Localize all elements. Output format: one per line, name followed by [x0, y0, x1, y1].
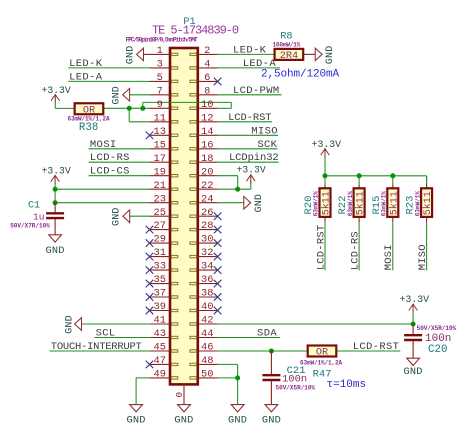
- wire pin46 to R47: [218, 350, 309, 352]
- junction +3.3V pin21: [53, 187, 58, 192]
- junction C21: [269, 349, 274, 354]
- svg-text:GND: GND: [112, 86, 123, 105]
- pin 3: [150, 59, 178, 71]
- svg-text:8: 8: [204, 85, 210, 97]
- svg-text:MISO: MISO: [417, 244, 429, 270]
- ground pin7: [112, 86, 130, 105]
- svg-text:GND: GND: [174, 415, 193, 427]
- svg-text:49: 49: [154, 369, 166, 381]
- +3.3V pullups: [321, 149, 330, 158]
- wire LED-A pin5: [69, 80, 151, 82]
- wire +3.3V C20 shaft: [412, 312, 414, 324]
- svg-text:TOUCH-INTERRUPT: TOUCH-INTERRUPT: [51, 341, 142, 353]
- svg-text:63mW/1%: 63mW/1%: [414, 191, 421, 217]
- svg-text:C1: C1: [28, 201, 40, 212]
- svg-text:25: 25: [154, 207, 166, 219]
- pin 12: [190, 112, 218, 124]
- resistor R38: [75, 103, 104, 116]
- svg-text:5: 5: [157, 72, 163, 84]
- wire pin50 down to GND: [237, 378, 239, 405]
- wire pin42 to +3.3V rail: [218, 323, 414, 325]
- svg-text:19: 19: [154, 166, 166, 178]
- svg-text:27: 27: [154, 220, 166, 232]
- svg-text:+3.3V: +3.3V: [42, 166, 71, 177]
- pin 42: [190, 315, 218, 327]
- junction pin50: [235, 375, 240, 380]
- svg-text:GND: GND: [254, 194, 265, 213]
- svg-text:21: 21: [154, 180, 166, 192]
- pin 11: [150, 112, 178, 124]
- pin 47: [146, 355, 178, 368]
- svg-text:R38: R38: [79, 122, 98, 134]
- ground C20: [404, 358, 423, 378]
- wire dot to pin11 vertical: [128, 108, 130, 122]
- svg-text:LCD-RS: LCD-RS: [90, 152, 130, 164]
- wire +3.3V to pin21: [55, 188, 150, 190]
- svg-text:SCK: SCK: [257, 139, 277, 151]
- pin 41: [150, 315, 178, 327]
- svg-text:0: 0: [174, 392, 185, 398]
- svg-text:6: 6: [204, 72, 210, 84]
- svg-text:2,5ohm/120mA: 2,5ohm/120mA: [261, 69, 340, 81]
- svg-text:50V/X5R/10%: 50V/X5R/10%: [417, 325, 457, 332]
- svg-text:FPC/50pin10P/0,5mmPitch/SMT: FPC/50pin10P/0,5mmPitch/SMT: [126, 36, 198, 43]
- C21 pin upper: [270, 351, 272, 374]
- svg-text:GND: GND: [404, 366, 423, 378]
- svg-text:LED-A: LED-A: [243, 58, 277, 70]
- wire R20 bottom: [324, 217, 326, 222]
- C1 pin upper: [54, 203, 56, 213]
- resistor R47: [308, 346, 337, 359]
- svg-text:GND: GND: [46, 245, 65, 257]
- pin 38: [190, 288, 221, 301]
- pin 5: [150, 72, 178, 84]
- +3.3V C20: [409, 304, 418, 313]
- wire R20 top: [324, 176, 326, 185]
- wire LED-K pin3: [69, 67, 151, 69]
- svg-text:LCD-RS: LCD-RS: [349, 231, 361, 270]
- pin 31: [146, 247, 178, 260]
- pin 40: [190, 301, 221, 314]
- wire MISO pin14: [218, 134, 278, 136]
- wire LCD-RST pin12: [218, 121, 272, 123]
- wire LCD-CS pin19: [89, 175, 151, 177]
- svg-text:SCL: SCL: [96, 328, 116, 340]
- pin 39: [146, 301, 178, 314]
- wire SCL pin43: [95, 337, 151, 339]
- svg-text:43: 43: [154, 328, 166, 340]
- svg-text:63mW/1%/1,2A: 63mW/1%/1,2A: [300, 360, 343, 367]
- svg-text:LCDpin32: LCDpin32: [229, 152, 279, 164]
- pin 24: [190, 193, 218, 205]
- wire pin48 down: [237, 364, 239, 378]
- pin 27: [146, 220, 178, 233]
- wire R23 drop: [426, 176, 428, 185]
- svg-text:28: 28: [201, 220, 213, 232]
- svg-text:20: 20: [201, 166, 213, 178]
- resistor R23: [421, 188, 434, 217]
- pin 46: [190, 342, 218, 354]
- wire R23 top: [426, 176, 428, 185]
- svg-text:MISO: MISO: [251, 125, 278, 137]
- resistor R15: [387, 188, 400, 217]
- svg-text:50V/X7R/10%: 50V/X7R/10%: [10, 223, 50, 230]
- svg-text:+3.3V: +3.3V: [312, 139, 342, 150]
- svg-text:13: 13: [154, 126, 166, 138]
- pin 20: [190, 166, 218, 178]
- connector P1 body: [170, 48, 198, 384]
- wire pin49 left: [136, 377, 150, 379]
- pin 30: [190, 234, 221, 247]
- wire pin50 right: [218, 377, 238, 379]
- wire LED-A pin4: [218, 67, 280, 69]
- wire +3.3V rail pullups: [325, 175, 427, 177]
- junction pin9 A: [127, 106, 132, 111]
- wire GND pin41: [82, 323, 151, 325]
- svg-text:2R4: 2R4: [280, 51, 298, 62]
- svg-text:3: 3: [157, 59, 163, 71]
- ground pin49: [127, 405, 146, 427]
- pin 0 mounting: [174, 386, 185, 405]
- pin 19: [150, 166, 178, 178]
- svg-text:50: 50: [201, 369, 213, 381]
- svg-text:5k11: 5k11: [321, 191, 333, 215]
- junction pin22: [235, 187, 240, 192]
- wire SDA pin44: [218, 337, 280, 339]
- svg-text:32: 32: [201, 247, 213, 259]
- svg-text:44: 44: [201, 328, 213, 340]
- svg-text:35: 35: [154, 274, 166, 286]
- wire +3.3V vertical C1: [54, 183, 56, 203]
- pin 18: [190, 153, 218, 165]
- pin 8: [190, 85, 218, 97]
- wire +3.3V shaft pullups: [324, 157, 326, 176]
- C20 pin upper: [412, 324, 414, 334]
- resistor R22: [354, 188, 367, 217]
- wire pin2 to R8: [218, 53, 275, 55]
- pin 22: [190, 180, 218, 192]
- C21 pin lower: [270, 381, 272, 405]
- wire pin20 down to pin22: [237, 176, 239, 190]
- wire pin20 right: [218, 175, 238, 177]
- pin 48: [190, 355, 218, 367]
- svg-text:46: 46: [201, 342, 213, 354]
- svg-text:GND: GND: [112, 207, 123, 226]
- svg-text:34: 34: [201, 261, 213, 273]
- pin 23: [150, 193, 178, 205]
- pin 50: [190, 369, 218, 381]
- svg-text:5k11: 5k11: [355, 191, 367, 215]
- wire GND pin7: [130, 94, 150, 96]
- wire loop to pin10: [218, 107, 232, 109]
- ground pin25: [112, 207, 130, 226]
- svg-text:LCD-RST: LCD-RST: [228, 112, 271, 124]
- ground R8: [315, 46, 336, 65]
- svg-text:OR: OR: [316, 348, 328, 359]
- svg-text:GND: GND: [262, 415, 281, 427]
- svg-text:GND: GND: [65, 315, 76, 334]
- wire R15 bottom: [392, 217, 394, 222]
- svg-text:42: 42: [201, 315, 213, 327]
- C1 pin lower: [54, 219, 56, 235]
- svg-text:5k11: 5k11: [388, 191, 400, 215]
- svg-text:LED-K: LED-K: [233, 44, 267, 56]
- pin 35: [146, 274, 178, 287]
- wire over body pins9-10 up: [142, 102, 144, 108]
- resistor R20: [320, 188, 333, 217]
- svg-text:τ=10ms: τ=10ms: [327, 379, 367, 391]
- svg-text:SDA: SDA: [257, 328, 277, 340]
- capacitor C21: [262, 375, 280, 380]
- svg-text:38: 38: [201, 288, 213, 300]
- pin 43: [150, 328, 178, 340]
- svg-text:GND: GND: [126, 46, 137, 65]
- wire LCD-PWM pin8: [218, 94, 282, 96]
- svg-text:63mW/1%: 63mW/1%: [381, 191, 388, 217]
- svg-text:MOSI: MOSI: [383, 244, 395, 270]
- svg-text:+3.3V: +3.3V: [237, 165, 266, 176]
- svg-text:GND: GND: [127, 415, 146, 427]
- svg-text:GND: GND: [228, 415, 247, 427]
- wire R15 top: [392, 176, 394, 185]
- pin 29: [146, 234, 178, 247]
- svg-text:41: 41: [154, 315, 166, 327]
- svg-text:7: 7: [157, 85, 163, 97]
- svg-text:14: 14: [201, 126, 213, 138]
- svg-text:23: 23: [154, 193, 166, 205]
- wire SCK pin16: [218, 148, 278, 150]
- ground pin0: [174, 405, 193, 427]
- pin 17: [150, 153, 178, 165]
- pin 45: [150, 342, 178, 354]
- ground pin24: [244, 194, 265, 213]
- junction R20: [323, 173, 328, 178]
- pin 9: [150, 99, 178, 111]
- wire +3.3V to pin23: [55, 202, 150, 204]
- svg-text:GND: GND: [325, 46, 336, 65]
- wire pin49 down to GND: [135, 378, 137, 405]
- svg-text:LCD-RST: LCD-RST: [353, 341, 400, 353]
- wire LCD-RS pin17: [89, 161, 151, 163]
- svg-text:MOSI: MOSI: [90, 139, 117, 151]
- svg-text:LCD-PWM: LCD-PWM: [233, 85, 280, 97]
- C20 pin lower: [412, 341, 414, 358]
- junction R15: [390, 173, 395, 178]
- svg-text:+3.3V: +3.3V: [400, 294, 430, 305]
- wire +3.3V to R38: [54, 103, 56, 109]
- svg-text:2: 2: [204, 45, 210, 57]
- pin 14: [190, 126, 218, 138]
- svg-text:LCD-RST: LCD-RST: [315, 225, 327, 271]
- wire GND pin1 stub: [144, 53, 151, 55]
- pin 13: [146, 126, 178, 139]
- svg-text:17: 17: [154, 153, 166, 165]
- pin 49: [150, 369, 178, 381]
- ground pin50: [228, 405, 247, 427]
- junction R22: [357, 173, 362, 178]
- svg-text:39: 39: [154, 301, 166, 313]
- pin 34: [190, 261, 221, 274]
- wire TOUCH-INTERRUPT pin45: [50, 350, 151, 352]
- wire dot to pin11 horizontal: [129, 121, 150, 123]
- pin 7: [150, 85, 178, 97]
- wire loop pin10 down: [230, 102, 232, 108]
- svg-text:18: 18: [201, 153, 213, 165]
- pin 28: [190, 220, 221, 233]
- svg-text:9: 9: [157, 99, 163, 111]
- junction pin9 B: [140, 106, 145, 111]
- wire R8 to GND arrow: [303, 53, 315, 55]
- svg-text:16: 16: [201, 139, 213, 151]
- svg-text:29: 29: [154, 234, 166, 246]
- ground C1: [46, 235, 65, 257]
- svg-text:30: 30: [201, 234, 213, 246]
- pin 4: [190, 59, 218, 71]
- pin 44: [190, 328, 218, 340]
- wire R47 to LCD-RST: [336, 350, 401, 352]
- junction C1 pin23: [53, 200, 58, 205]
- svg-text:4: 4: [204, 59, 210, 71]
- svg-text:1u: 1u: [33, 212, 44, 223]
- svg-text:+3.3V: +3.3V: [42, 85, 71, 96]
- wire +3.3V pin22 shaft: [250, 181, 252, 189]
- wire R22 top: [358, 176, 360, 185]
- svg-text:45: 45: [154, 342, 166, 354]
- svg-text:1: 1: [157, 45, 163, 57]
- wire R22 bottom: [358, 217, 360, 222]
- svg-text:10: 10: [201, 99, 213, 111]
- pin 37: [146, 288, 178, 301]
- svg-text:22: 22: [201, 180, 213, 192]
- pin 2: [190, 45, 218, 57]
- svg-text:LED-K: LED-K: [69, 58, 103, 70]
- svg-text:40: 40: [201, 301, 213, 313]
- pin 15: [150, 139, 178, 151]
- svg-text:48: 48: [201, 355, 213, 367]
- junction C20: [411, 322, 416, 327]
- wire LCDpin32 pin18: [218, 161, 279, 163]
- wire GND pin25: [130, 215, 150, 217]
- svg-text:63mW/1%: 63mW/1%: [347, 191, 354, 217]
- wire pin48 right: [218, 363, 238, 365]
- svg-text:33: 33: [154, 261, 166, 273]
- ground pin41: [65, 315, 82, 334]
- capacitor C1: [46, 213, 64, 218]
- svg-text:15: 15: [154, 139, 166, 151]
- svg-text:36: 36: [201, 274, 213, 286]
- +3.3V pin22: [247, 175, 256, 184]
- pin 16: [190, 139, 218, 151]
- svg-text:LCD-CS: LCD-CS: [90, 166, 130, 178]
- svg-text:12: 12: [201, 112, 213, 124]
- svg-text:24: 24: [201, 193, 213, 205]
- pin 1: [150, 45, 178, 57]
- svg-text:26: 26: [201, 207, 213, 219]
- wire R23 bottom: [426, 217, 428, 222]
- svg-text:47: 47: [154, 355, 166, 367]
- svg-text:50V/X5R/10%: 50V/X5R/10%: [276, 384, 316, 391]
- pin 36: [190, 274, 221, 287]
- pin 26: [190, 207, 221, 220]
- resistor R8: [275, 49, 304, 62]
- pin 32: [190, 247, 221, 260]
- svg-text:11: 11: [154, 112, 166, 124]
- wire over body pins9-10 horizontal: [143, 101, 232, 103]
- pin 33: [146, 261, 178, 274]
- svg-text:5k11: 5k11: [422, 191, 434, 215]
- pin 10: [190, 99, 218, 111]
- pin 21: [150, 180, 178, 192]
- wire pin24 to GND: [218, 202, 244, 204]
- +3.3V R38: [51, 95, 60, 104]
- wire R38 to pin9: [103, 107, 150, 109]
- pin 25: [150, 207, 178, 219]
- capacitor C20: [404, 335, 422, 340]
- ground C21: [262, 405, 281, 427]
- svg-text:100mW/1%: 100mW/1%: [273, 41, 301, 48]
- +3.3V C1: [51, 175, 60, 184]
- svg-text:C20: C20: [428, 344, 447, 356]
- wire MOSI pin15: [89, 148, 151, 150]
- pin 6: [190, 72, 221, 85]
- svg-text:LED-A: LED-A: [69, 71, 103, 83]
- wire pin22 to +3.3V: [218, 188, 251, 190]
- svg-text:31: 31: [154, 247, 166, 259]
- svg-text:63mW/1%: 63mW/1%: [313, 191, 320, 217]
- svg-text:37: 37: [154, 288, 166, 300]
- ground pin1: [126, 46, 144, 65]
